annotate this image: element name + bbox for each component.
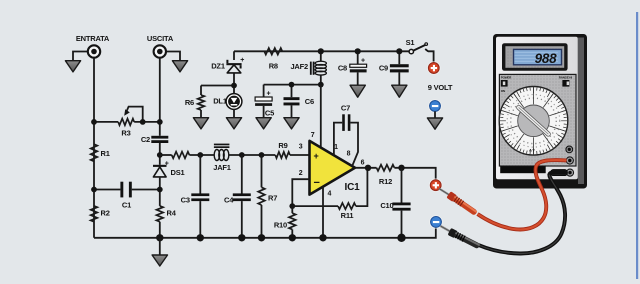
resistor R9: [275, 152, 290, 158]
junction R3 wiper: [140, 119, 146, 125]
wire node to R5: [160, 154, 172, 156]
capacitor C9: [390, 51, 409, 85]
junction R3/ENTRATA rail: [91, 119, 97, 125]
junction C3 top: [197, 152, 203, 158]
inductor JAF2: [310, 51, 327, 84]
resistor R2: [91, 206, 98, 222]
wire top rail: [234, 50, 410, 52]
junction DZ1/DL1: [231, 83, 237, 89]
junction C10 top: [398, 165, 404, 171]
wire R12 to + output: [394, 168, 435, 180]
svg-text:R1: R1: [101, 149, 110, 158]
dial sector lines: [501, 87, 566, 156]
op-amp IC1: [310, 141, 356, 195]
ground below battery: [427, 118, 442, 129]
capacitor C1: [120, 182, 123, 198]
junction C6 top: [289, 82, 295, 88]
wire R9 to pin 3: [290, 154, 310, 156]
wire R3 row right: [134, 121, 160, 123]
power switch: [501, 76, 512, 93]
output + terminal: [430, 180, 441, 191]
resistor R8: [264, 48, 282, 55]
wire ENTRATA rail down: [93, 58, 95, 238]
svg-text:988: 988: [535, 51, 558, 66]
meter black band: [500, 166, 546, 173]
ground below C9: [392, 85, 407, 97]
capacitor C2: [151, 136, 168, 139]
multimeter body: [493, 34, 587, 189]
svg-text:R12: R12: [379, 177, 392, 186]
junction R5/DS1 node: [157, 152, 163, 158]
svg-text:C9: C9: [379, 64, 388, 73]
range switch: [559, 76, 572, 87]
svg-text:C1: C1: [122, 200, 131, 209]
junction R3/USCITA rail: [157, 119, 163, 125]
wire C1 row right: [132, 189, 160, 191]
svg-text:A⌔: A⌔: [529, 148, 536, 153]
wire C5/C6/JAF2 node: [264, 84, 321, 86]
wire pin 2: [292, 179, 309, 206]
wire R6 branch: [201, 86, 234, 96]
svg-text:R8: R8: [269, 62, 278, 71]
svg-text:POWER: POWER: [501, 76, 512, 80]
svg-text:+: +: [314, 151, 319, 161]
resistor R4: [157, 206, 164, 222]
svg-text:2: 2: [299, 170, 303, 177]
resistor R3: [118, 119, 134, 126]
svg-text:R2: R2: [101, 208, 110, 217]
capacitor C3: [199, 155, 201, 194]
capacitor C10: [401, 168, 403, 203]
junction output/R11: [365, 165, 371, 171]
wire R11 to output node: [356, 168, 368, 206]
resistor R6: [198, 95, 205, 110]
ground below C6: [284, 118, 299, 129]
svg-text:R7: R7: [268, 194, 277, 203]
page edge line: [636, 12, 638, 279]
black test cable: [479, 172, 568, 254]
junction bottom C10: [397, 234, 405, 242]
wire C1 row left: [94, 189, 120, 191]
svg-text:DZ1: DZ1: [211, 61, 225, 70]
dial tick marks: [500, 87, 567, 154]
knob pointer: [516, 105, 552, 138]
diode DS1: [153, 160, 169, 177]
svg-text:3: 3: [299, 144, 303, 151]
svg-text:ON: ON: [501, 89, 505, 93]
svg-text:C8: C8: [338, 64, 347, 73]
dial inner scale marks: [511, 98, 557, 144]
svg-text:C4: C4: [224, 195, 234, 204]
wire R5 to JAF1: [189, 154, 214, 156]
junction C1 right: [157, 187, 163, 193]
svg-text:ENTRATA: ENTRATA: [76, 34, 110, 43]
switch S1: [409, 43, 434, 63]
output - terminal: [431, 217, 442, 228]
ground at ENTRATA: [65, 61, 80, 72]
svg-text:7: 7: [311, 132, 315, 139]
junction bottom C3: [197, 234, 204, 241]
svg-text:C2: C2: [141, 135, 150, 144]
svg-text:R3: R3: [121, 129, 130, 138]
wire USCITA stub to ground: [166, 52, 180, 61]
wire output pin 6: [355, 167, 377, 169]
junction C9 top: [396, 48, 402, 54]
wire JAF2 to pin 7: [320, 85, 322, 149]
wire JAF1 to R9: [229, 154, 276, 156]
capacitor C5 (electrolytic): [255, 85, 272, 118]
svg-text:+: +: [267, 91, 271, 98]
svg-text:RANGE HI: RANGE HI: [559, 76, 572, 80]
wire C7 to pin 8: [350, 123, 358, 166]
multimeter panel: [499, 74, 576, 166]
wire bottom rail: [94, 227, 436, 237]
resistor R1: [91, 144, 98, 161]
wire R3 row left: [94, 121, 118, 123]
battery + terminal: [428, 63, 439, 74]
multimeter dial: [499, 87, 568, 156]
inductor JAF1: [214, 144, 230, 161]
ground at USCITA: [172, 61, 187, 72]
black probe: [441, 226, 481, 250]
svg-text:9 VOLT: 9 VOLT: [428, 83, 453, 92]
resistor R12: [377, 165, 395, 171]
junction bottom R10: [289, 234, 296, 241]
svg-text:6: 6: [361, 159, 365, 166]
junction bottom pin4: [319, 234, 326, 241]
svg-text:DL1: DL1: [213, 97, 227, 106]
wire USCITA rail down to C2: [159, 58, 161, 136]
svg-text:+: +: [361, 58, 365, 65]
svg-text:R11: R11: [341, 211, 354, 220]
trimmer arrow of R3: [127, 107, 143, 122]
junction C1 left: [91, 187, 97, 193]
junction bottom R7: [258, 234, 265, 241]
meter jack top: [566, 146, 573, 153]
junction pin2/R10/R11: [289, 203, 295, 209]
capacitor C6: [284, 85, 300, 118]
svg-text:C7: C7: [341, 104, 350, 113]
junction bottom R4: [156, 234, 163, 241]
ground below C5: [256, 118, 271, 129]
main ground: [152, 255, 167, 266]
capacitor C7: [342, 114, 345, 131]
battery - terminal: [430, 101, 441, 112]
zener DZ1: [226, 57, 244, 73]
svg-text:+: +: [240, 57, 244, 64]
junction R7 top: [259, 152, 265, 158]
multimeter LCD: [514, 49, 562, 66]
svg-text:R6: R6: [185, 98, 194, 107]
connector J-ENTRATA: [88, 45, 100, 57]
connector J-USCITA: [154, 45, 166, 57]
wire main ground stem: [159, 238, 161, 255]
black probe plug: [551, 170, 568, 176]
wire R4 to bottom rail: [159, 222, 161, 238]
resistor R7: [261, 155, 263, 187]
dial knob: [518, 105, 550, 137]
capacitor C4: [241, 155, 243, 194]
junction C4 top: [239, 152, 245, 158]
ground below DL1: [226, 118, 241, 129]
svg-text:C5: C5: [265, 109, 274, 118]
svg-text:R4: R4: [167, 208, 177, 217]
junction C8 top: [355, 48, 361, 54]
LED DL1: [226, 94, 242, 110]
wire battery - to ground: [434, 111, 436, 118]
resistor R11: [338, 203, 356, 209]
red probe: [439, 189, 478, 217]
svg-text:JAF2: JAF2: [290, 62, 308, 71]
junction bottom C4: [238, 234, 245, 241]
multimeter display bezel: [502, 43, 568, 71]
svg-text:8: 8: [347, 150, 351, 157]
wire pin 4: [322, 187, 324, 238]
wire DZ1 from rail: [233, 51, 235, 60]
wire DL1 to ground: [233, 109, 235, 117]
svg-text:S1: S1: [406, 38, 415, 47]
junction JAF2 top: [318, 48, 324, 54]
wire ENTRATA stub to ground: [73, 52, 88, 61]
svg-text:R9: R9: [278, 141, 287, 150]
svg-text:C10: C10: [380, 201, 393, 210]
capacitor C8 (electrolytic): [350, 51, 367, 85]
meter jack bottom: [566, 169, 573, 176]
wire DZ1 to DL1: [233, 74, 235, 94]
svg-text:+: +: [165, 160, 169, 167]
red test cable: [478, 160, 567, 229]
resistor R10: [291, 206, 293, 213]
junction JAF2 bottom: [318, 82, 324, 88]
wire pin 1 to C7: [334, 123, 342, 156]
ground below R6: [193, 118, 208, 129]
svg-text:USCITA: USCITA: [147, 34, 174, 43]
svg-text:C3: C3: [181, 195, 190, 204]
meter jack middle: [566, 157, 573, 164]
svg-text:JAF1: JAF1: [213, 163, 231, 172]
wire DS1 to C1 row: [159, 178, 161, 206]
svg-text:C6: C6: [305, 97, 314, 106]
svg-text:4: 4: [328, 191, 332, 198]
resistor R5: [172, 152, 190, 159]
svg-text:IC1: IC1: [345, 182, 361, 193]
svg-text:DS1: DS1: [171, 168, 185, 177]
wire R11 row: [292, 205, 338, 207]
svg-text:R10: R10: [274, 220, 287, 229]
wire C2 to DS1: [159, 143, 161, 165]
svg-text:−: −: [314, 177, 320, 189]
ground below C8: [350, 85, 365, 97]
